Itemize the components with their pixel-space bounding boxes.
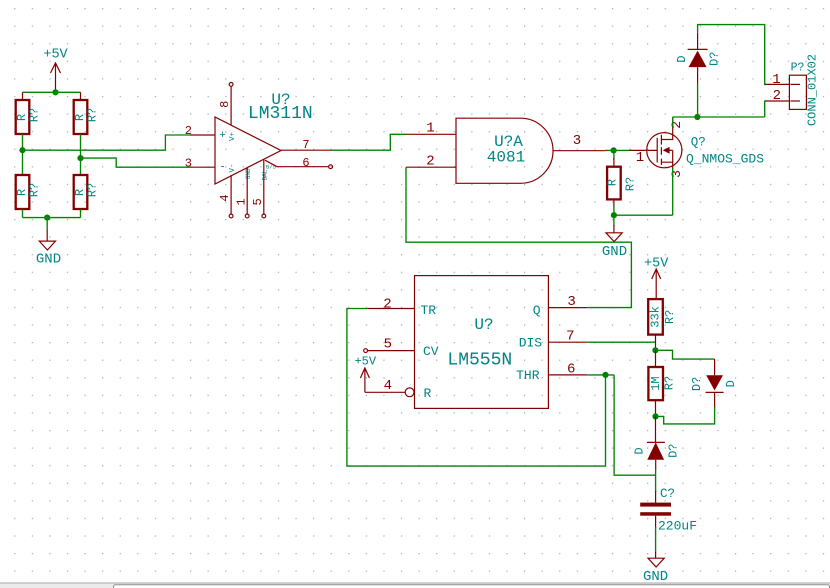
svg-text:V+: V+ (229, 132, 237, 142)
wire THR pin to node (587, 374, 614, 376)
resistor R7 1M (648, 367, 676, 400)
svg-text:4: 4 (384, 378, 392, 394)
svg-text:R?: R? (86, 108, 100, 122)
svg-text:3: 3 (573, 133, 581, 149)
wire R1 bottom to left mid node (22, 134, 24, 175)
svg-text:6: 6 (302, 156, 309, 170)
pin 1 (U2A input A) (406, 121, 456, 137)
svg-text:5: 5 (251, 198, 265, 205)
pin 2 (U3 TR) (368, 297, 415, 313)
wire U1 out to U2 pin1 (331, 134, 406, 150)
svg-text:D: D (675, 55, 689, 62)
pin 2 (U1 +IN) (185, 124, 215, 138)
wire GND drop (46, 218, 48, 230)
svg-text:R?: R? (28, 183, 42, 197)
wire source horizontal (614, 214, 673, 216)
wire R1 top stub (22, 92, 24, 100)
power +5V (bridge supply) (43, 48, 68, 93)
svg-text:V-: V- (229, 163, 237, 172)
wire R6 bottom to node (655, 335, 657, 351)
wire bridge bottom left leg (22, 209, 24, 218)
svg-text:CONN_01X02: CONN_01X02 (806, 54, 820, 126)
svg-text:P?: P? (791, 62, 805, 75)
wire R5 bottom to source node (613, 199, 615, 207)
svg-text:GND: GND (245, 168, 252, 179)
svg-text:33k: 33k (648, 306, 662, 328)
svg-text:C?: C? (660, 487, 675, 501)
svg-text:D: D (724, 380, 738, 387)
capacitor C1 220uF (640, 487, 697, 534)
svg-text:1: 1 (636, 150, 644, 166)
pin 1 (U1 GND) (235, 168, 249, 218)
node DIS junction (652, 347, 658, 353)
svg-text:1: 1 (235, 198, 249, 205)
timer U3 LM555N (415, 276, 549, 409)
svg-text:2: 2 (426, 154, 434, 170)
svg-text:GND: GND (36, 252, 61, 268)
svg-text:+: + (219, 130, 226, 142)
svg-text:D?: D? (707, 52, 721, 66)
wire bridge top (23, 91, 81, 93)
svg-text:Q: Q (533, 303, 541, 318)
svg-text:BAL: BAL (262, 169, 269, 180)
svg-text:8: 8 (218, 101, 232, 108)
svg-text:7: 7 (566, 328, 574, 344)
pin 3 (U1 -IN) (185, 156, 215, 170)
resistor R6 33k (648, 299, 677, 335)
wire left node to comparator non-inv input (23, 135, 191, 150)
wire node to D2 anode (655, 350, 714, 359)
svg-text:R?: R? (662, 376, 676, 390)
wire bridge bottom (23, 217, 81, 219)
svg-text:1: 1 (772, 72, 780, 88)
wire Q to U2A input B (406, 167, 631, 307)
resistor R4 (73, 175, 100, 209)
svg-text:LM555N: LM555N (447, 351, 512, 371)
svg-text:R: R (606, 179, 620, 186)
node bridge top junction (52, 89, 58, 95)
svg-text:GND: GND (602, 244, 627, 260)
svg-text:+5V: +5V (43, 48, 68, 63)
svg-text:+5V: +5V (644, 256, 669, 271)
svg-text:CV: CV (423, 344, 439, 359)
svg-text:LM311N: LM311N (248, 104, 313, 124)
resistor R1 (15, 100, 42, 134)
wire drain node horizontal (673, 116, 765, 118)
and-gate U2A 4081 (456, 118, 553, 183)
svg-text:1M: 1M (649, 376, 663, 390)
wire U2A out to gate node (605, 149, 629, 151)
svg-text:R: R (423, 386, 431, 401)
node THR junction (602, 372, 608, 378)
wire R7 bottom to node (655, 400, 657, 416)
wire bridge bottom right leg (80, 209, 82, 218)
pin 7 (U1 OUT) (281, 138, 331, 152)
pin 3 (U3 Q) (548, 294, 587, 310)
svg-text:DIS: DIS (519, 335, 543, 350)
diode D3 (633, 442, 681, 470)
pin 5 (U3 CV) (364, 337, 415, 353)
power +5V (timing divider) (644, 256, 669, 299)
ground GND (mosfet source) (602, 215, 627, 260)
wire gate node to Q1 gate (629, 149, 657, 151)
pin 6 (U3 THR) (548, 361, 587, 377)
svg-text:2: 2 (669, 121, 684, 129)
svg-text:2: 2 (185, 124, 192, 138)
power +5V (reset pull-up) (354, 355, 376, 393)
resistor R3 (15, 175, 42, 209)
wire right node to comparator inv input (81, 158, 191, 167)
wire D1 to connector pin1 (698, 25, 766, 85)
svg-text:2: 2 (383, 297, 391, 313)
svg-text:+5V: +5V (354, 355, 376, 369)
diode D1 (675, 33, 721, 84)
wire Q1 drain up (672, 117, 674, 127)
pin 4 (U3 R) (365, 378, 414, 397)
svg-text:THR: THR (516, 368, 540, 383)
pin 2 (U2A input B) (406, 154, 456, 170)
op-amp U1 LM311N (215, 91, 313, 184)
svg-text:3: 3 (185, 156, 192, 170)
svg-text:7: 7 (302, 138, 309, 152)
node bridge bottom junction (44, 215, 50, 221)
svg-text:3: 3 (669, 170, 684, 178)
wire gate node down to R5 (613, 150, 615, 160)
pin 7 (U3 DIS) (548, 328, 587, 344)
wire D3 anode to cap (655, 469, 657, 492)
wire node to D3 (655, 416, 657, 442)
svg-text:3: 3 (567, 294, 575, 310)
node gate junction (611, 147, 617, 153)
pin 8 (U1 V+) (218, 83, 233, 126)
wire THR node to cap top (614, 375, 655, 475)
wire DIS to divider (587, 341, 655, 343)
svg-text:R?: R? (624, 177, 638, 191)
wire diode branch up (697, 84, 699, 118)
wire D2 cathode loop to R7 bottom node (656, 407, 715, 424)
pin 4 (U1 V-) (218, 175, 233, 218)
wire node to R7 top (655, 350, 657, 367)
resistor R2 (73, 100, 100, 134)
svg-text:1: 1 (426, 121, 434, 137)
wire R2 bottom to right mid node (80, 134, 82, 175)
bottom window edge (0, 583, 830, 588)
svg-text:D?: D? (690, 377, 704, 391)
connector P1 CONN_01X02 (789, 54, 819, 126)
transistor Q1 Q_NMOS_GDS (647, 117, 765, 169)
svg-text:TR: TR (420, 303, 436, 318)
ground GND (bridge) (36, 230, 61, 268)
svg-text:U?: U? (474, 316, 493, 334)
svg-text:R?: R? (663, 310, 677, 324)
svg-text:B/S: B/S (266, 163, 277, 170)
node left mid junction (19, 147, 25, 153)
svg-text:2: 2 (773, 88, 781, 104)
wire TR feedback loop (347, 309, 606, 467)
ground GND (cap) (643, 552, 668, 585)
node R7 bottom junction (652, 413, 658, 419)
svg-text:5: 5 (384, 337, 392, 353)
svg-text:-: - (219, 162, 226, 174)
wire cap bottom to GND (655, 516, 657, 528)
resistor R5 (606, 167, 638, 200)
svg-text:R?: R? (86, 183, 100, 197)
svg-text:R?: R? (28, 108, 42, 122)
wire Q1 source down (672, 168, 674, 215)
pin 5 (U1 BAL) (251, 159, 266, 218)
node right mid junction (77, 155, 83, 161)
svg-text:Q?: Q? (691, 136, 706, 150)
wire R2 top stub (80, 92, 82, 100)
svg-text:4: 4 (218, 194, 232, 201)
node source junction (611, 212, 617, 218)
svg-text:Q_NMOS_GDS: Q_NMOS_GDS (686, 152, 764, 167)
svg-text:D?: D? (666, 443, 680, 457)
wire drain to connector pin1 riser (765, 101, 766, 117)
svg-text:D: D (633, 447, 647, 454)
svg-text:6: 6 (567, 361, 575, 377)
pin 6 (U1 B/S) (265, 156, 333, 170)
diode D2 (690, 359, 738, 408)
pin 3 (U2A output) (553, 133, 605, 151)
svg-text:4081: 4081 (487, 149, 525, 167)
node drain junction (694, 114, 700, 120)
svg-text:220uF: 220uF (658, 519, 697, 534)
